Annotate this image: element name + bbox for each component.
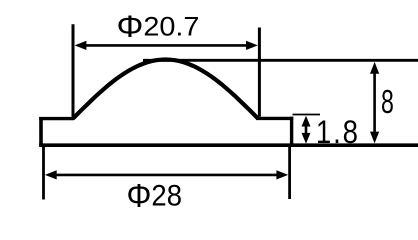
extension line left (phi 28) [42, 147, 45, 200]
arrowhead up (8) [370, 62, 379, 74]
base plate left edge [39, 117, 43, 146]
dimension line 8 [373, 67, 376, 138]
extension line right (phi 28) [288, 147, 291, 200]
arrowhead down (8) [370, 132, 379, 144]
svg-text:Φ28: Φ28 [127, 178, 183, 215]
arrowhead left (phi 28) [45, 170, 57, 179]
base plate top-left segment [39, 117, 74, 120]
arrowhead up (1.8) [302, 116, 311, 127]
arrowhead right (phi 28) [276, 170, 288, 179]
arrowhead down (1.8) [302, 133, 311, 144]
extension line left (phi 20.7) [72, 24, 75, 117]
arrowhead left (phi 20.7) [75, 41, 87, 50]
arrowhead right (phi 20.7) [246, 41, 258, 50]
base plate right edge [290, 117, 293, 147]
dimension line phi 28 [50, 174, 283, 177]
svg-text:8: 8 [381, 84, 394, 121]
svg-text:1.8: 1.8 [316, 115, 360, 151]
dome curve [73, 60, 258, 119]
extension line right (phi 20.7) [258, 28, 261, 117]
base plate top-right segment [256, 117, 293, 120]
apex level line (top reference for 8) [143, 59, 418, 62]
base plate bottom line extended to right edge [39, 143, 418, 147]
svg-text:Φ20.7: Φ20.7 [117, 8, 200, 44]
dimension line 1.8 [305, 121, 308, 139]
dimension line phi 20.7 [80, 44, 252, 47]
extension tick (1.8 top) [293, 114, 321, 116]
